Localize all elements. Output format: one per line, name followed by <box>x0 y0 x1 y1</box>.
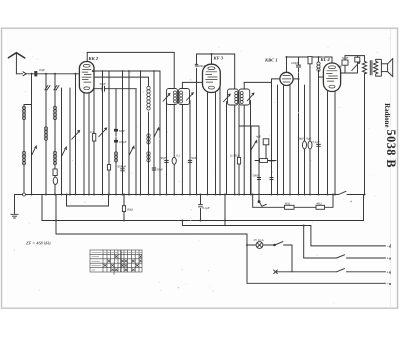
svg-text:8µF: 8µF <box>299 137 304 141</box>
svg-text:50pF: 50pF <box>157 168 164 172</box>
svg-text:−n: −n <box>387 281 392 286</box>
svg-text:5038 B: 5038 B <box>384 130 398 169</box>
svg-text:8µF: 8µF <box>307 137 312 141</box>
svg-text:100pF: 100pF <box>291 61 299 65</box>
svg-text:50pF: 50pF <box>119 129 126 133</box>
svg-text:100pF: 100pF <box>198 64 206 68</box>
svg-text:Radione: Radione <box>383 103 390 127</box>
svg-text:−d: −d <box>387 244 392 249</box>
svg-text:4µF: 4µF <box>256 135 261 139</box>
svg-text:400: 400 <box>338 65 343 69</box>
svg-text:5000: 5000 <box>269 159 276 163</box>
svg-text:50pF: 50pF <box>342 56 349 60</box>
svg-text:40Ω: 40Ω <box>316 202 322 206</box>
svg-text:ZF = 468 kHz: ZF = 468 kHz <box>26 241 51 246</box>
svg-text:5000: 5000 <box>253 174 260 178</box>
svg-text:KK 2: KK 2 <box>88 56 99 61</box>
svg-text:50pF: 50pF <box>100 82 107 86</box>
svg-text:10pF: 10pF <box>39 68 46 72</box>
svg-text:+n: +n <box>387 270 392 275</box>
svg-text:100pF: 100pF <box>119 140 127 144</box>
svg-text:+: + <box>350 199 353 204</box>
svg-text:5000pF: 5000pF <box>117 165 127 169</box>
svg-text:40Ω: 40Ω <box>285 202 291 206</box>
svg-text:KL 4: KL 4 <box>320 57 331 62</box>
svg-text:5000: 5000 <box>191 156 198 160</box>
svg-text:1MΩ: 1MΩ <box>127 208 134 212</box>
svg-text:+a: +a <box>387 256 391 261</box>
svg-text:KF 3: KF 3 <box>213 56 224 61</box>
svg-text:KBC 1: KBC 1 <box>264 58 278 63</box>
svg-text:50pF: 50pF <box>160 156 167 160</box>
